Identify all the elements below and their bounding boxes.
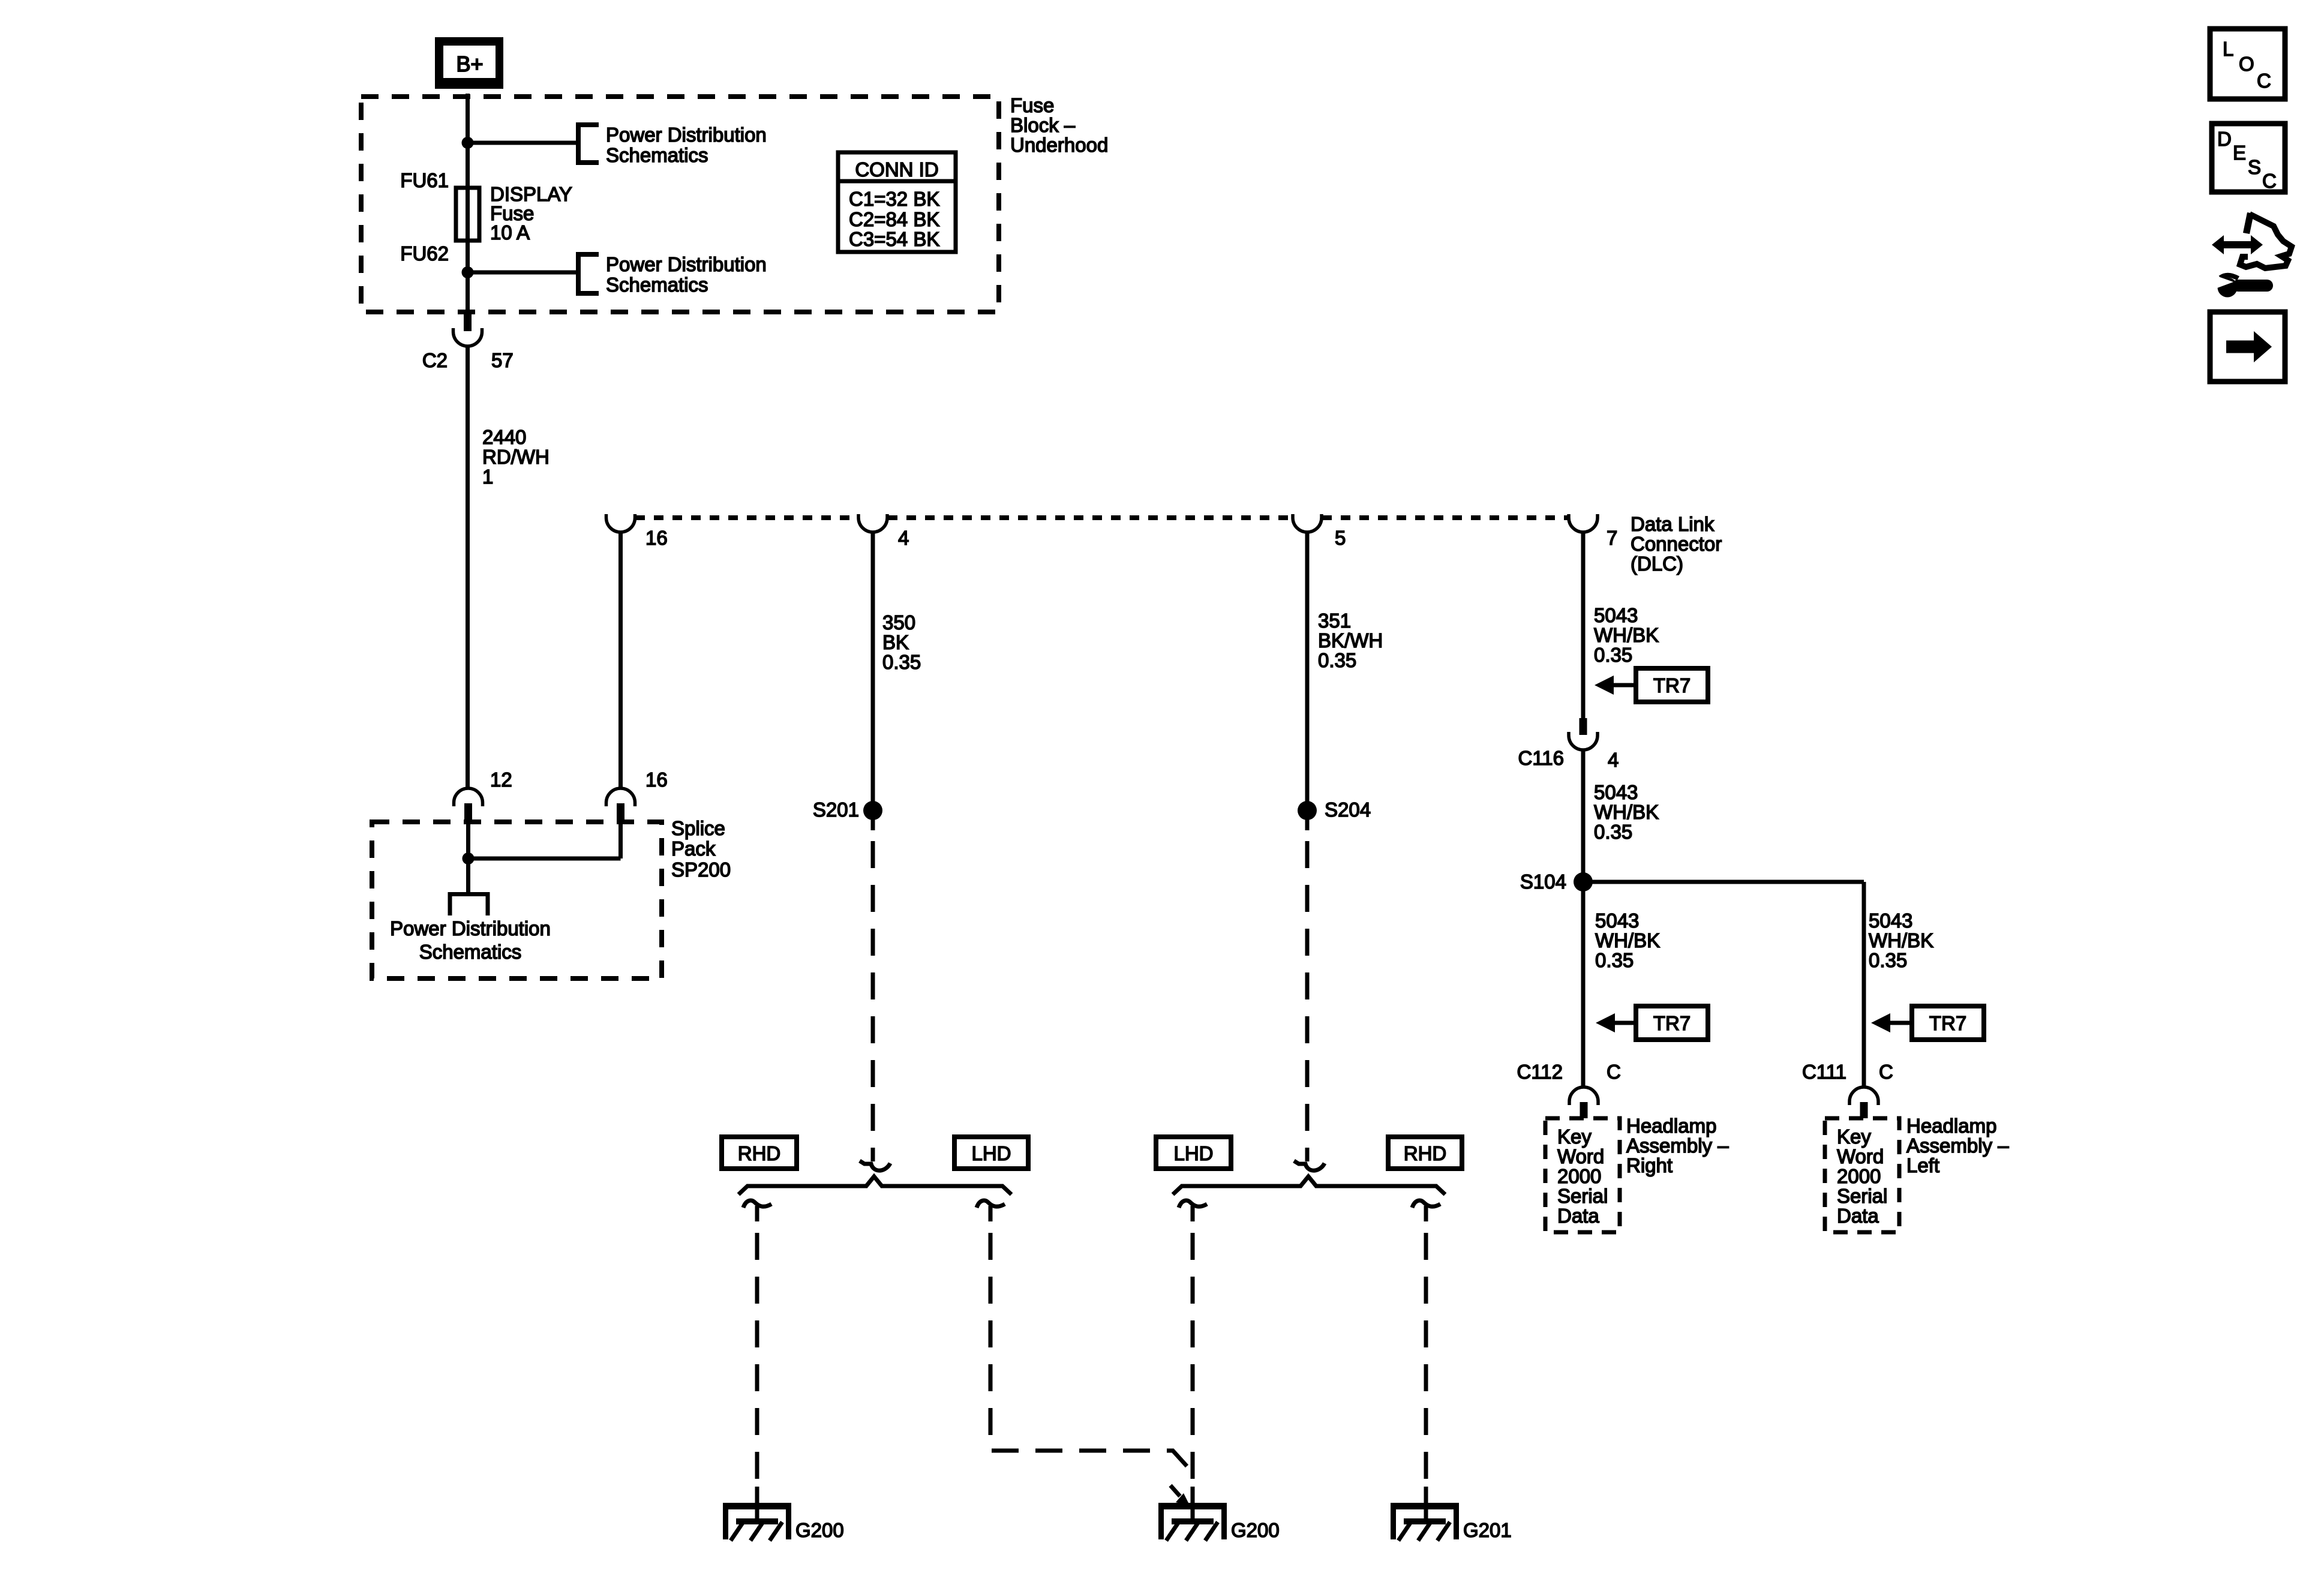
svg-text:C: C: [2262, 170, 2277, 192]
wire RHD2 dashed to G201: [1424, 1233, 1428, 1487]
svg-text:L: L: [2223, 38, 2233, 60]
svg-text:Data: Data: [1557, 1205, 1599, 1227]
svg-text:Key: Key: [1837, 1125, 1871, 1148]
node splice S201: [863, 801, 882, 820]
svg-text:G201: G201: [1463, 1519, 1512, 1541]
wire S204 dashed down: [1305, 841, 1310, 1151]
svg-text:WH/BK: WH/BK: [1594, 801, 1659, 823]
svg-text:0.35: 0.35: [1594, 821, 1632, 843]
svg-text:0.35: 0.35: [1869, 949, 1907, 971]
node junction dot FU61 feed: [462, 137, 474, 149]
svg-text:LHD: LHD: [971, 1142, 1011, 1164]
fork to power distribution: [450, 894, 488, 916]
svg-text:WH/BK: WH/BK: [1594, 624, 1659, 646]
wire B+ to fuse block: [466, 94, 470, 143]
svg-text:BK/WH: BK/WH: [1318, 629, 1383, 652]
svg-text:S201: S201: [813, 798, 859, 821]
wire fuse to connector C2: [466, 272, 470, 314]
power symbol B+: [435, 37, 503, 89]
curl hook LHD group 2: [1179, 1200, 1207, 1221]
svg-text:16: 16: [645, 527, 668, 549]
svg-text:16: 16: [645, 769, 668, 791]
Key Word 2000 Serial Data dashed box (right headlamp): [1545, 1118, 1620, 1232]
svg-text:Block –: Block –: [1010, 114, 1076, 136]
svg-text:2000: 2000: [1557, 1165, 1601, 1187]
svg-text:Serial: Serial: [1557, 1185, 1608, 1207]
svg-text:BK: BK: [882, 631, 909, 653]
label 5043 WH/BK 0.35 (DLC leg): [1594, 604, 1659, 666]
svg-text:FU62: FU62: [400, 242, 449, 265]
svg-text:FU61: FU61: [400, 169, 449, 191]
connector C2 pin 57: [454, 312, 482, 346]
svg-text:5043: 5043: [1869, 909, 1912, 932]
svg-text:Power Distribution: Power Distribution: [606, 253, 767, 275]
connector terminal 4 (DLC bus): [858, 514, 887, 532]
label Data Link Connector (DLC): [1631, 513, 1722, 575]
option box RHD (group 2): [1388, 1137, 1462, 1169]
svg-text:WH/BK: WH/BK: [1595, 929, 1660, 951]
svg-text:B+: B+: [456, 52, 483, 76]
wire LHD1 dashed jog to G200 center: [990, 1233, 1190, 1470]
svg-text:Fuse: Fuse: [1010, 94, 1054, 116]
label 5043 WH/BK 0.35 (C116 leg): [1594, 781, 1659, 843]
svg-text:2440: 2440: [482, 426, 526, 448]
ground G200 (center): [1158, 1503, 1227, 1541]
Key Word 2000 Serial Data dashed box (left headlamp): [1825, 1118, 1899, 1232]
connector C112 pin C: [1569, 1087, 1598, 1118]
svg-text:C: C: [1879, 1061, 1893, 1083]
svg-text:D: D: [2217, 128, 2232, 150]
node junction dot FU62 output: [462, 266, 474, 278]
svg-text:351: 351: [1318, 610, 1351, 632]
svg-text:10 A: 10 A: [490, 221, 530, 244]
wire splice internal left: [466, 822, 470, 892]
label 5043 WH/BK 0.35 (right branch): [1869, 909, 1933, 971]
svg-text:SP200: SP200: [671, 858, 731, 881]
CONN ID table: [838, 152, 956, 252]
label 5043 WH/BK 0.35 (left branch): [1595, 909, 1660, 971]
wire 4 cup down to S201: [871, 532, 875, 810]
svg-text:Connector: Connector: [1631, 533, 1722, 555]
svg-text:12: 12: [490, 769, 512, 791]
wire C116 to S104: [1581, 750, 1586, 882]
svg-text:TR7: TR7: [1653, 1012, 1691, 1034]
fuse block underhood dashed box: [361, 97, 999, 312]
label Splice Pack SP200: [671, 817, 731, 881]
svg-text:C: C: [1607, 1061, 1621, 1083]
icon LOC box: [2210, 29, 2285, 99]
svg-text:0.35: 0.35: [1318, 649, 1356, 671]
wire 16 cup down to splice: [618, 532, 623, 788]
svg-text:C116: C116: [1518, 747, 1564, 769]
brace group 2: [1173, 1176, 1445, 1194]
connector terminal 5 (DLC bus): [1293, 514, 1322, 532]
svg-text:57: 57: [491, 349, 514, 371]
label Power Distribution Schematics 3: [390, 917, 551, 963]
connector terminal 12 (splice pack): [454, 788, 483, 822]
curl hook RHD group 1: [743, 1200, 771, 1221]
label 2440 RD/WH 1: [482, 426, 550, 488]
wire splice internal horizontal: [469, 857, 621, 861]
wire S204 solid stub: [1305, 810, 1310, 830]
curl hook RHD group 2: [1412, 1200, 1440, 1221]
wire C2 to splice pack: [466, 346, 470, 788]
svg-text:G200: G200: [795, 1519, 844, 1541]
svg-text:4: 4: [898, 527, 909, 549]
svg-text:S204: S204: [1325, 798, 1371, 821]
wire G200 solid entry (center): [1191, 1487, 1195, 1520]
svg-text:G200: G200: [1231, 1519, 1280, 1541]
node splice S204: [1298, 801, 1317, 820]
wire right branch down to C111: [1862, 882, 1866, 1086]
svg-text:C2=84 BK: C2=84 BK: [849, 208, 939, 230]
hook at S204 wire end: [1294, 1151, 1325, 1170]
label Power Distribution Schematics 1: [606, 124, 767, 166]
wire junction to bracket 2: [468, 271, 578, 275]
svg-text:(DLC): (DLC): [1631, 553, 1683, 575]
ground G201: [1391, 1503, 1459, 1541]
svg-text:Assembly –: Assembly –: [1626, 1134, 1729, 1157]
svg-text:Data Link: Data Link: [1631, 513, 1715, 535]
svg-text:RD/WH: RD/WH: [482, 446, 550, 468]
off-page bracket 2 (power distribution): [578, 254, 599, 293]
option box LHD (group 2): [1156, 1137, 1231, 1169]
wire G201 solid entry: [1424, 1487, 1428, 1520]
fuse FU61/FU62 DISPLAY 10A: [456, 188, 479, 241]
connector C116 pin 4: [1569, 718, 1598, 750]
svg-text:CONN ID: CONN ID: [855, 158, 938, 181]
svg-text:Serial: Serial: [1837, 1185, 1887, 1207]
svg-text:Splice: Splice: [671, 817, 725, 839]
node splice junction dot: [463, 852, 475, 864]
svg-text:0.35: 0.35: [1595, 949, 1634, 971]
icon vehicle diagnostic (car profile with arrow and wrench): [2212, 212, 2292, 298]
svg-text:5: 5: [1335, 527, 1346, 549]
icon forward arrow box: [2210, 312, 2285, 382]
svg-text:RHD: RHD: [738, 1142, 781, 1164]
label Fuse Block - Underhood: [1010, 94, 1108, 156]
svg-text:5043: 5043: [1594, 781, 1638, 803]
svg-text:Right: Right: [1626, 1154, 1673, 1176]
wire RHD1 dashed to G200: [755, 1233, 759, 1487]
svg-text:7: 7: [1607, 527, 1617, 549]
svg-text:0.35: 0.35: [882, 651, 921, 673]
wire S201 dashed down: [871, 841, 875, 1151]
svg-text:WH/BK: WH/BK: [1869, 929, 1933, 951]
svg-text:C111: C111: [1802, 1061, 1846, 1083]
connector terminal 16 (splice pack): [606, 788, 635, 822]
svg-text:C1=32 BK: C1=32 BK: [849, 188, 939, 210]
testpoint arrow TR7 (right branch): [1871, 1006, 1984, 1040]
svg-text:Headlamp: Headlamp: [1626, 1115, 1716, 1137]
wire G200 solid entry (left): [755, 1487, 759, 1520]
testpoint arrow TR7 (upper): [1595, 668, 1708, 702]
svg-text:O: O: [2239, 53, 2254, 75]
svg-text:350: 350: [882, 611, 915, 634]
svg-text:C3=54 BK: C3=54 BK: [849, 228, 939, 250]
svg-text:Headlamp: Headlamp: [1906, 1115, 1996, 1137]
option box RHD (group 1): [722, 1137, 797, 1169]
svg-text:LHD: LHD: [1173, 1142, 1213, 1164]
svg-text:Word: Word: [1557, 1145, 1604, 1167]
svg-text:4: 4: [1608, 749, 1619, 771]
label DISPLAY Fuse 10 A: [490, 183, 572, 244]
wire 7 cup down to C116: [1581, 532, 1586, 719]
wire left branch down to C112: [1581, 882, 1586, 1086]
svg-text:E: E: [2233, 142, 2246, 164]
wire junction to bracket 1: [468, 141, 578, 145]
label Headlamp Assembly - Right: [1626, 1115, 1729, 1176]
brace group 1: [738, 1176, 1011, 1194]
svg-text:TR7: TR7: [1653, 674, 1691, 697]
svg-text:1: 1: [482, 466, 493, 488]
svg-text:Schematics: Schematics: [606, 274, 708, 296]
svg-text:TR7: TR7: [1929, 1012, 1966, 1034]
svg-text:Power Distribution: Power Distribution: [606, 124, 767, 146]
svg-text:Power Distribution: Power Distribution: [390, 917, 551, 939]
svg-text:Data: Data: [1837, 1205, 1879, 1227]
wire into fuse: [466, 143, 470, 272]
svg-text:5043: 5043: [1595, 909, 1639, 932]
wire S201 solid stub: [871, 810, 875, 830]
svg-text:Schematics: Schematics: [606, 144, 708, 166]
svg-text:S104: S104: [1520, 870, 1566, 893]
hook at S201 wire end: [860, 1151, 890, 1170]
icon DESC box: [2212, 124, 2285, 192]
splice pack SP200 dashed box: [372, 822, 662, 978]
svg-text:C112: C112: [1517, 1061, 1563, 1083]
svg-text:5043: 5043: [1594, 604, 1638, 626]
wire S104 branch horizontal: [1583, 880, 1864, 884]
svg-text:Pack: Pack: [671, 837, 716, 860]
svg-text:C: C: [2257, 70, 2271, 92]
label 351 BK/WH 0.35: [1318, 610, 1383, 671]
label Power Distribution Schematics 2: [606, 253, 767, 296]
wire LHD2 dashed to G200 center: [1191, 1233, 1195, 1487]
connector terminal 16 (DLC bus): [606, 514, 635, 532]
svg-text:Assembly –: Assembly –: [1906, 1134, 2009, 1157]
wire splice internal right: [618, 822, 623, 858]
svg-text:Word: Word: [1837, 1145, 1884, 1167]
node splice S104: [1574, 872, 1593, 891]
ground G200 (left): [723, 1503, 791, 1541]
off-page bracket 1 (power distribution): [578, 125, 599, 163]
connector C111 pin C: [1849, 1087, 1878, 1118]
curl hook LHD group 1: [977, 1200, 1005, 1221]
svg-text:RHD: RHD: [1404, 1142, 1447, 1164]
connector terminal 7 (DLC bus): [1569, 514, 1598, 532]
svg-text:S: S: [2248, 156, 2261, 178]
svg-text:Left: Left: [1906, 1154, 1939, 1176]
testpoint arrow TR7 (left branch): [1596, 1006, 1708, 1040]
svg-text:Schematics: Schematics: [419, 941, 522, 963]
DLC dashed bus line: [635, 515, 1568, 520]
svg-text:C2: C2: [422, 349, 448, 371]
svg-text:Underhood: Underhood: [1010, 134, 1108, 156]
svg-text:0.35: 0.35: [1594, 644, 1632, 666]
label 350 BK 0.35: [882, 611, 921, 673]
svg-text:Key: Key: [1557, 1125, 1592, 1148]
arrow into G200 center: [1170, 1485, 1190, 1506]
svg-text:2000: 2000: [1837, 1165, 1881, 1187]
option box LHD (group 1): [954, 1137, 1028, 1169]
wire 5 cup down to S204: [1305, 532, 1310, 810]
label Headlamp Assembly - Left: [1906, 1115, 2009, 1176]
